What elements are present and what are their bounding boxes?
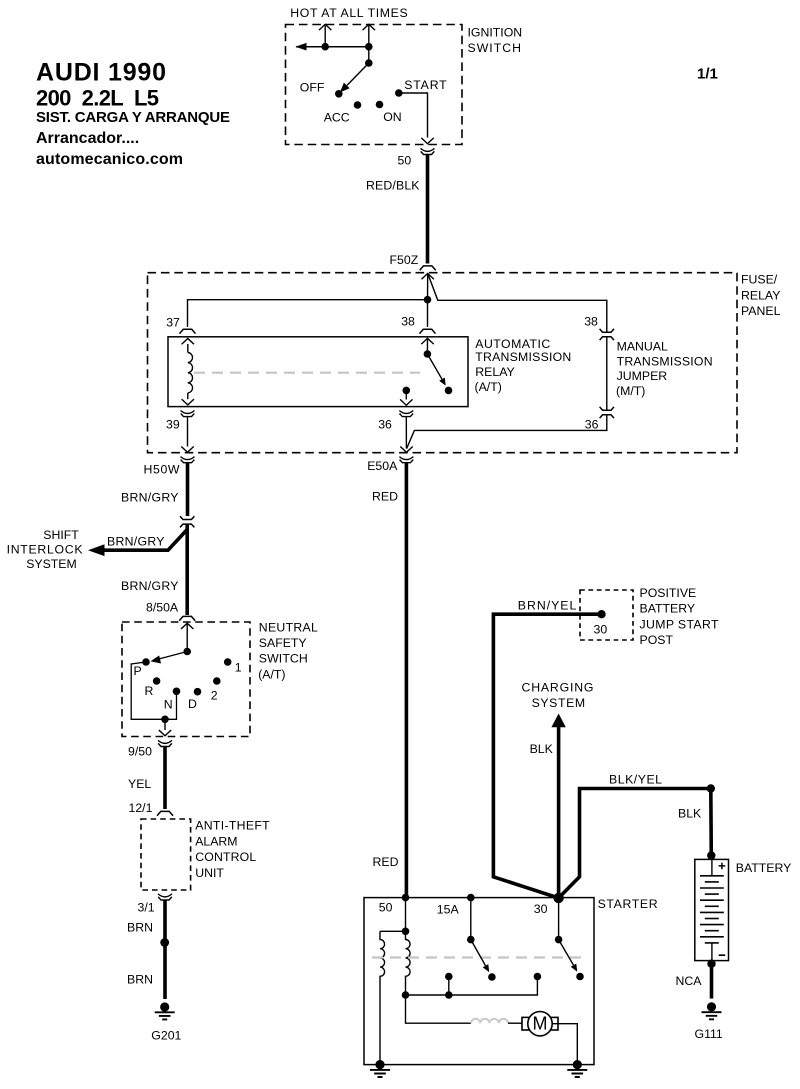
wire BRN/GRY H50W down bbox=[186, 463, 190, 516]
arrow to shift interlock bbox=[88, 544, 105, 556]
svg-text:AUDI 1990: AUDI 1990 bbox=[36, 59, 166, 87]
svg-text:PANEL: PANEL bbox=[741, 304, 781, 318]
wire P to N bracket bbox=[131, 662, 176, 719]
wire motor to ground bbox=[552, 1024, 577, 1065]
positive battery jump start post box bbox=[580, 590, 633, 640]
svg-text:F50Z: F50Z bbox=[390, 253, 419, 267]
svg-text:IGNITION: IGNITION bbox=[468, 25, 523, 39]
junction dot B bbox=[365, 43, 373, 51]
svg-text:ON: ON bbox=[383, 110, 401, 124]
contact ON bbox=[376, 101, 384, 109]
svg-text:38: 38 bbox=[584, 315, 598, 329]
wire winding to motor bbox=[508, 1022, 522, 1024]
ground G111 bbox=[702, 1002, 722, 1019]
wire BLK/YEL battery to starter bbox=[559, 789, 711, 899]
svg-text:BRN: BRN bbox=[127, 921, 153, 935]
connector 39 bbox=[181, 411, 195, 417]
svg-text:3/1: 3/1 bbox=[138, 900, 155, 914]
wire 39 to H50W bbox=[187, 417, 189, 447]
wire RED/BLK 50 to F50Z bbox=[426, 155, 430, 264]
connector 8/50A bbox=[179, 616, 195, 620]
svg-text:2: 2 bbox=[211, 689, 218, 703]
switch 15A pivot bbox=[467, 936, 475, 944]
manual transmission jumper wire bbox=[606, 337, 608, 410]
relay switch entry bbox=[421, 338, 433, 344]
NSS pivot dot bbox=[183, 648, 191, 656]
panel entry arrow bbox=[422, 273, 434, 279]
svg-text:BRN/GRY: BRN/GRY bbox=[121, 490, 179, 504]
wire NCA bbox=[710, 964, 714, 999]
svg-text:MANUAL: MANUAL bbox=[617, 340, 668, 354]
svg-text:RED: RED bbox=[373, 855, 399, 869]
svg-text:R: R bbox=[145, 684, 154, 698]
hot feed arrow 1 bbox=[324, 26, 326, 47]
relay switch arm bbox=[427, 354, 442, 379]
starter internal dashed link bbox=[372, 956, 584, 958]
switch 30 contact dot bbox=[576, 973, 584, 981]
switch 15A arm bbox=[471, 940, 486, 966]
svg-text:(A/T): (A/T) bbox=[258, 667, 285, 681]
starter terminal 15A dot bbox=[467, 894, 475, 902]
svg-text:G111: G111 bbox=[695, 1027, 723, 1041]
svg-text:HOT AT ALL TIMES: HOT AT ALL TIMES bbox=[290, 6, 407, 20]
contact OFF bbox=[335, 90, 343, 98]
svg-text:ACC: ACC bbox=[324, 111, 350, 125]
svg-text:BRN: BRN bbox=[127, 972, 153, 986]
svg-text:36: 36 bbox=[378, 417, 392, 431]
contact P bbox=[142, 658, 150, 666]
svg-text:CHARGING: CHARGING bbox=[522, 680, 594, 694]
contact R bbox=[153, 677, 161, 685]
battery terminal dot top bbox=[707, 851, 715, 859]
svg-text:automecanico.com: automecanico.com bbox=[36, 151, 183, 168]
connector 9/50 bbox=[158, 740, 172, 746]
svg-text:SHIFT: SHIFT bbox=[43, 528, 79, 542]
svg-text:TRANSMISSION: TRANSMISSION bbox=[475, 350, 571, 364]
battery minus sign bbox=[719, 954, 726, 956]
wire BRN/GRY to 8/50A bbox=[185, 525, 189, 616]
battery top stub bbox=[711, 859, 713, 875]
svg-text:OFF: OFF bbox=[300, 80, 325, 94]
battery box bbox=[695, 859, 729, 960]
branch wire to shift interlock bbox=[103, 530, 187, 551]
contact ACC bbox=[354, 101, 362, 109]
svg-text:SYSTEM: SYSTEM bbox=[532, 696, 586, 710]
svg-text:STARTER: STARTER bbox=[598, 897, 658, 911]
svg-text:15A: 15A bbox=[437, 903, 460, 917]
svg-text:START: START bbox=[404, 78, 447, 92]
svg-text:SYSTEM: SYSTEM bbox=[26, 557, 77, 571]
svg-text:E50A: E50A bbox=[367, 459, 398, 473]
svg-text:BLK: BLK bbox=[678, 806, 702, 820]
starter terminal 50 dot bbox=[402, 894, 410, 902]
bus stub dot bbox=[445, 991, 453, 999]
junction dot A bbox=[321, 43, 329, 51]
svg-text:P: P bbox=[134, 664, 142, 678]
wire jumper 36 to E50A rail bbox=[407, 415, 607, 449]
hold-in coil bbox=[380, 931, 385, 1064]
svg-text:1/1: 1/1 bbox=[697, 66, 718, 83]
battery terminal dot bottom bbox=[707, 960, 715, 968]
wire START to terminal 50 bbox=[399, 93, 428, 138]
svg-text:G201: G201 bbox=[151, 1029, 181, 1043]
fuse F50Z terminal bbox=[420, 266, 436, 270]
svg-text:CONTROL: CONTROL bbox=[195, 850, 256, 864]
bus junction dot bbox=[402, 991, 410, 999]
starter ground left bbox=[370, 1060, 390, 1077]
svg-text:50: 50 bbox=[379, 900, 393, 914]
svg-text:H50W: H50W bbox=[144, 463, 180, 477]
svg-text:POST: POST bbox=[640, 633, 674, 647]
svg-text:BRN/GRY: BRN/GRY bbox=[107, 534, 165, 548]
junction dot F50Z rail bbox=[424, 296, 432, 304]
svg-text:D: D bbox=[188, 697, 197, 711]
starter box bbox=[364, 898, 594, 1065]
svg-text:(A/T): (A/T) bbox=[475, 380, 502, 394]
svg-text:BRN/GRY: BRN/GRY bbox=[121, 579, 179, 593]
connector 3/1 bbox=[158, 894, 172, 900]
wire BLK to charging system bbox=[557, 726, 561, 899]
svg-text:RELAY: RELAY bbox=[475, 365, 514, 379]
field winding bbox=[471, 1019, 508, 1023]
svg-text:ALARM: ALARM bbox=[195, 834, 237, 848]
relay internal dashed link bbox=[194, 372, 420, 374]
svg-text:30: 30 bbox=[594, 622, 608, 636]
svg-text:TRANSMISSION: TRANSMISSION bbox=[617, 354, 713, 368]
connector H50W bbox=[181, 457, 195, 463]
svg-text:FUSE/: FUSE/ bbox=[741, 273, 778, 287]
svg-text:JUMP START: JUMP START bbox=[640, 617, 719, 631]
wire BLK battery bbox=[709, 789, 713, 860]
svg-text:SIST. CARGA Y ARRANQUE: SIST. CARGA Y ARRANQUE bbox=[36, 109, 230, 126]
svg-text:38: 38 bbox=[401, 315, 415, 329]
contact N bbox=[173, 688, 181, 696]
svg-text:RED/BLK: RED/BLK bbox=[366, 179, 420, 193]
neutral safety switch box bbox=[122, 622, 250, 737]
svg-text:50: 50 bbox=[398, 154, 412, 168]
connector 36 jumper bbox=[600, 407, 614, 418]
svg-text:SWITCH: SWITCH bbox=[259, 652, 308, 666]
svg-text:BATTERY: BATTERY bbox=[640, 602, 696, 616]
wire to motor bbox=[406, 995, 472, 1023]
connector 50 bbox=[421, 148, 435, 154]
svg-text:37: 37 bbox=[166, 316, 180, 330]
NSS entry arrow bbox=[181, 623, 193, 629]
connector 38 jumper bbox=[600, 329, 614, 340]
battery bottom stub bbox=[711, 943, 713, 961]
wire RED E50A to starter bbox=[405, 463, 409, 898]
svg-text:36: 36 bbox=[585, 418, 599, 432]
svg-text:RELAY: RELAY bbox=[741, 288, 780, 302]
svg-text:RED: RED bbox=[372, 490, 398, 504]
svg-text:UNIT: UNIT bbox=[195, 866, 224, 880]
svg-text:SWITCH: SWITCH bbox=[468, 41, 522, 55]
jump start post dot bbox=[597, 610, 605, 618]
switch 30 pivot bbox=[555, 936, 563, 944]
svg-text:SAFETY: SAFETY bbox=[259, 636, 307, 650]
wire to hold-in coil bbox=[380, 930, 406, 932]
pull-in coil bbox=[406, 931, 411, 995]
anti-theft alarm control unit box bbox=[141, 819, 191, 890]
junction dot BLK/YEL bbox=[707, 784, 715, 792]
svg-text:200 2.2L L5: 200 2.2L L5 bbox=[36, 86, 159, 111]
svg-text:YEL: YEL bbox=[128, 777, 151, 791]
svg-text:1: 1 bbox=[235, 661, 242, 675]
svg-text:12/1: 12/1 bbox=[129, 801, 153, 815]
ignition feed wire horizontal bbox=[296, 46, 369, 48]
svg-text:M: M bbox=[533, 1014, 548, 1034]
svg-text:AUTOMATIC: AUTOMATIC bbox=[475, 337, 550, 351]
connector 38 relay bbox=[420, 329, 436, 333]
svg-text:BLK: BLK bbox=[530, 742, 554, 756]
contact D bbox=[194, 688, 202, 696]
svg-text:Arrancador....: Arrancador.... bbox=[36, 130, 139, 147]
wire BRN upper bbox=[163, 900, 167, 999]
switch 30 arm bbox=[559, 940, 574, 966]
connector E50A bbox=[399, 457, 413, 463]
connector 12/1 bbox=[157, 811, 173, 815]
motor M bbox=[522, 1017, 558, 1030]
svg-text:BLK/YEL: BLK/YEL bbox=[609, 773, 662, 787]
contact 2 bbox=[213, 677, 221, 685]
battery plates bbox=[700, 876, 724, 943]
A/T relay box bbox=[168, 337, 468, 407]
svg-text:POSITIVE: POSITIVE bbox=[640, 586, 697, 600]
wire 36 to E50A bbox=[405, 417, 407, 449]
svg-text:BRN/YEL: BRN/YEL bbox=[518, 599, 577, 613]
relay arm contact dot bbox=[445, 387, 453, 395]
wire to relay 38 bbox=[427, 300, 429, 327]
starter ground right bbox=[567, 1060, 587, 1077]
contact dot right bbox=[534, 973, 542, 981]
connector 37 bbox=[180, 329, 196, 333]
svg-text:ANTI-THEFT: ANTI-THEFT bbox=[195, 819, 270, 833]
arrow left (feed) bbox=[295, 43, 306, 51]
svg-text:9/50: 9/50 bbox=[128, 744, 152, 758]
ground G201 bbox=[155, 1002, 175, 1019]
relay coil bbox=[182, 339, 194, 345]
NSS output wire bbox=[164, 719, 166, 730]
relay output contact bbox=[403, 387, 411, 395]
splice dot BRN bbox=[160, 938, 169, 947]
ignition switch box bbox=[286, 25, 463, 145]
svg-text:39: 39 bbox=[166, 418, 180, 432]
svg-text:N: N bbox=[164, 698, 173, 712]
wire 50 into solenoid bbox=[405, 898, 407, 932]
fuse/relay panel box bbox=[148, 273, 738, 453]
wire YEL bbox=[163, 747, 167, 810]
inline connector BRN/GRY bbox=[180, 516, 194, 527]
ignition pivot dot bbox=[365, 59, 373, 67]
svg-text:JUMPER: JUMPER bbox=[617, 369, 668, 383]
contact START bbox=[395, 89, 403, 97]
relay switch pivot bbox=[424, 350, 432, 358]
ignition switch arm bbox=[347, 63, 369, 85]
svg-text:(M/T): (M/T) bbox=[616, 384, 645, 398]
rail right to 38 bbox=[428, 273, 607, 332]
wire to pivot bbox=[368, 47, 370, 63]
wire BRN/YEL to jump start post bbox=[493, 614, 601, 898]
switch 15A contact dot bbox=[488, 973, 496, 981]
svg-text:NEUTRAL: NEUTRAL bbox=[259, 620, 318, 634]
NSS output junction bbox=[161, 716, 169, 724]
connector 36 relay bbox=[399, 411, 413, 417]
starter terminal 30 dot bbox=[553, 893, 563, 903]
hot feed arrow 2 bbox=[368, 26, 370, 47]
svg-text:BATTERY: BATTERY bbox=[736, 861, 792, 875]
rail left to 37 bbox=[188, 300, 428, 327]
arrow to charging system bbox=[551, 714, 565, 728]
NSS switch arm bbox=[155, 652, 187, 661]
solenoid contact bus bbox=[406, 977, 538, 996]
solenoid junction dot bbox=[402, 928, 410, 936]
battery plus sign bbox=[719, 863, 726, 870]
contact 1 bbox=[224, 658, 232, 666]
svg-text:30: 30 bbox=[534, 902, 548, 916]
contact dot left bbox=[445, 973, 453, 981]
svg-text:NCA: NCA bbox=[676, 974, 703, 988]
svg-text:8/50A: 8/50A bbox=[146, 601, 179, 615]
svg-text:INTERLOCK: INTERLOCK bbox=[7, 543, 84, 557]
